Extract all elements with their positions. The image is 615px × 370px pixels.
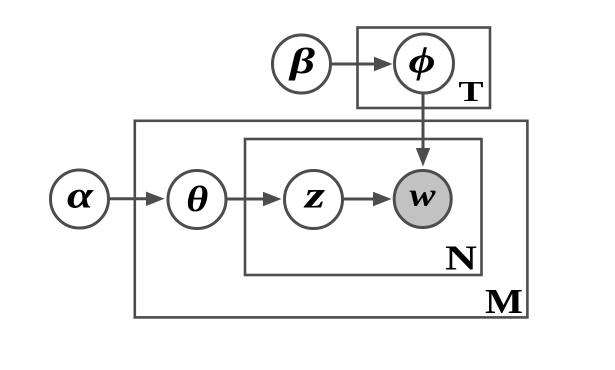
- svg-text:β: β: [287, 41, 315, 81]
- svg-text:ϕ: ϕ: [409, 41, 436, 82]
- svg-text:z: z: [302, 175, 325, 217]
- arrow alpha->theta: [109, 192, 165, 206]
- node z: [285, 171, 343, 229]
- arrow phi->w: [416, 93, 430, 167]
- plate M: [135, 121, 528, 318]
- arrow beta->phi: [331, 57, 393, 71]
- node theta: [168, 171, 226, 229]
- node phi: [395, 34, 454, 93]
- svg-text:T: T: [459, 76, 484, 108]
- svg-text:α: α: [67, 175, 94, 217]
- node w (observed, shaded): [394, 171, 451, 228]
- plate T: [358, 28, 491, 109]
- svg-text:θ: θ: [186, 179, 208, 219]
- arrow theta->z: [227, 192, 282, 206]
- node beta: [273, 35, 331, 93]
- svg-text:N: N: [445, 239, 477, 278]
- svg-text:M: M: [485, 282, 523, 321]
- svg-text:w: w: [410, 178, 437, 214]
- plate N: [245, 139, 482, 275]
- arrow z->w: [343, 192, 392, 206]
- node alpha: [51, 170, 109, 228]
